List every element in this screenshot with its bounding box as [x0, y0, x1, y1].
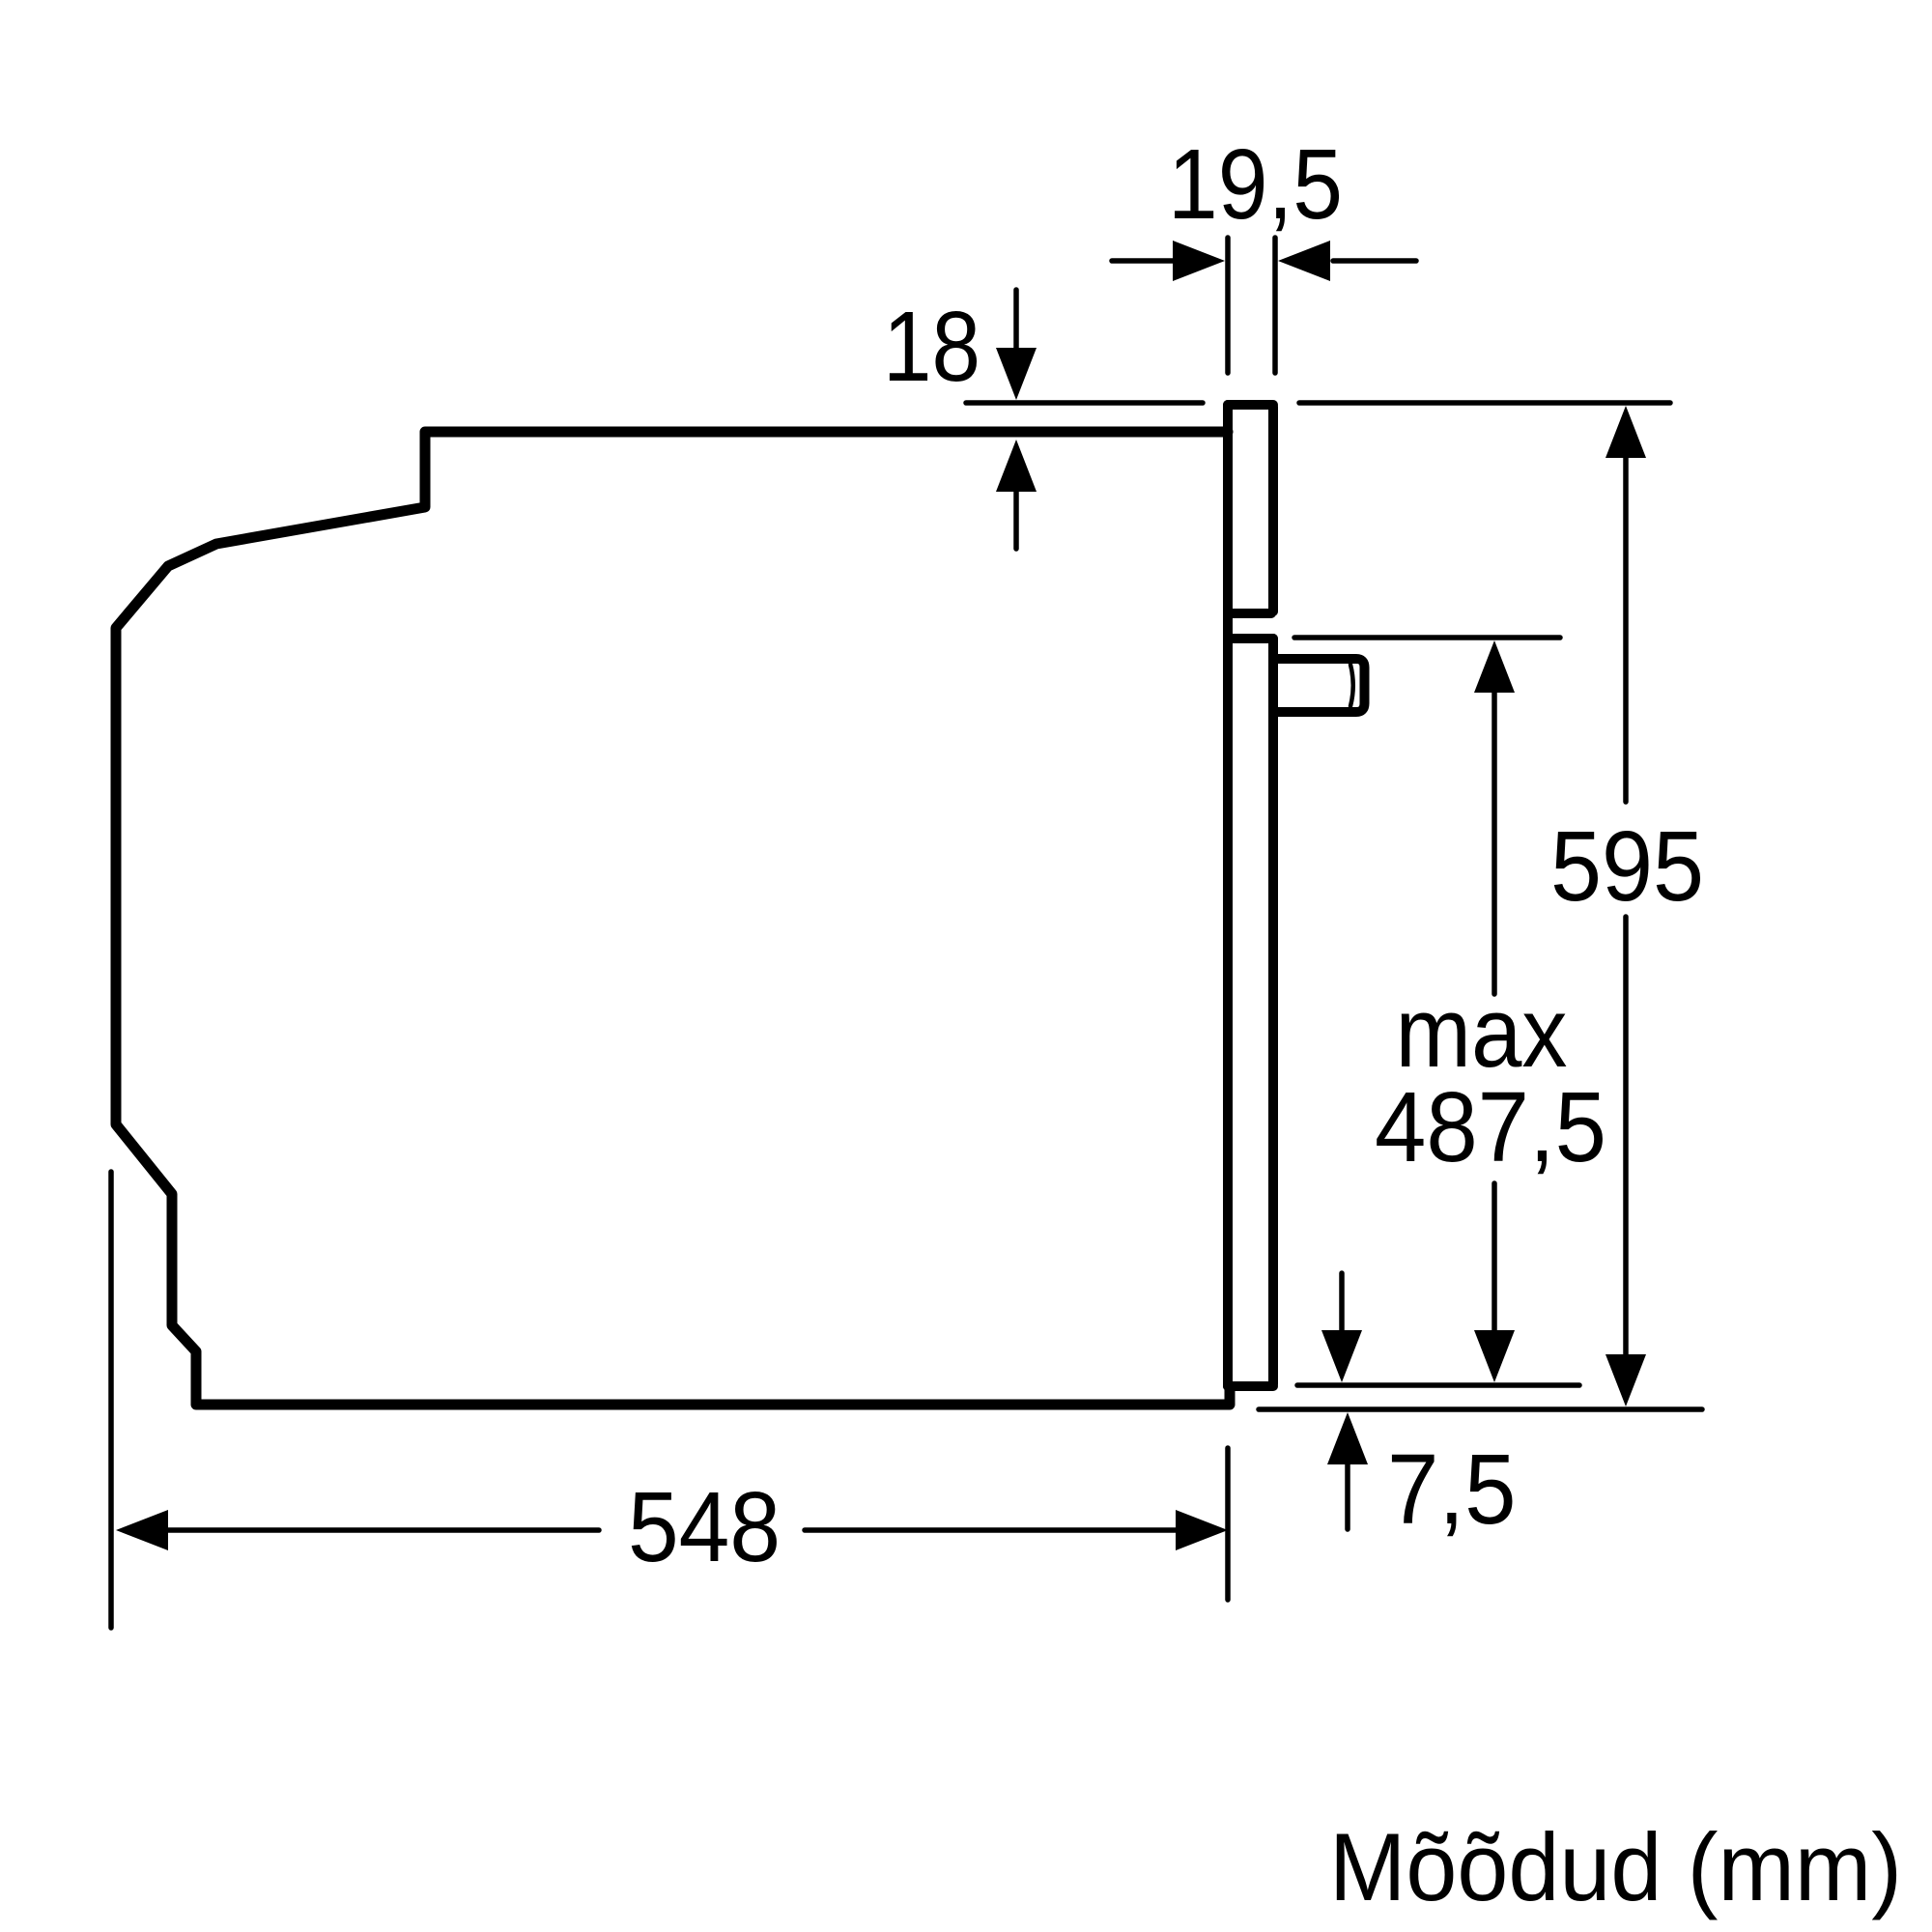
- extension line 548 left: [108, 1172, 114, 1628]
- dimension 548 line left part: [166, 1527, 599, 1533]
- extension line 19,5 right: [1272, 238, 1278, 373]
- arrowhead 18 pointing up: [996, 440, 1037, 492]
- arrowhead 18 pointing down: [996, 348, 1037, 400]
- extension line body bottom: [1259, 1406, 1702, 1412]
- oven body outline: [116, 432, 1230, 1405]
- door handle: [1275, 659, 1365, 712]
- dimension 595 line lower: [1623, 917, 1629, 1356]
- arrowhead 595 pointing down: [1605, 1354, 1646, 1406]
- arrowhead max 487,5 pointing up: [1474, 640, 1515, 693]
- dimension 595 line upper: [1623, 456, 1629, 802]
- dimension 19,5 right arrow line: [1333, 258, 1416, 264]
- arrowhead 595 pointing up: [1605, 406, 1646, 458]
- oven door bottom edge: [1228, 1381, 1273, 1391]
- oven door top edge: [1228, 400, 1273, 410]
- svg-text:548: 548: [628, 1471, 781, 1582]
- extension line top left segment: [966, 400, 1203, 406]
- svg-text:487,5: 487,5: [1375, 1071, 1606, 1182]
- arrowhead max 487,5 pointing down: [1474, 1330, 1515, 1382]
- dimension 18 lower arrow line: [1013, 488, 1019, 549]
- extension line top right segment: [1299, 400, 1670, 406]
- arrowhead 7,5 pointing up: [1327, 1412, 1368, 1464]
- dimension 548 line right part: [805, 1527, 1178, 1533]
- arrowhead 19,5 pointing left: [1278, 241, 1330, 281]
- dimension max 487,5 line upper: [1492, 691, 1497, 994]
- arrowhead 7,5 pointing down: [1321, 1330, 1362, 1382]
- svg-text:Mõõdud (mm): Mõõdud (mm): [1329, 1813, 1902, 1920]
- dimension 19,5 left arrow line: [1112, 258, 1175, 264]
- dimension 7,5 upper arrow line: [1339, 1273, 1345, 1333]
- arrowhead 548 pointing right: [1176, 1510, 1228, 1550]
- arrowhead 548 pointing left: [116, 1510, 168, 1550]
- oven door front face lower: [1268, 639, 1278, 1384]
- oven door inner bar A: [1230, 609, 1271, 618]
- oven door rear face: [1223, 405, 1233, 1386]
- door handle end cap inner line: [1350, 665, 1353, 706]
- oven door front face upper: [1268, 407, 1278, 611]
- dimension 7,5 lower arrow line: [1345, 1462, 1350, 1529]
- svg-text:19,5: 19,5: [1168, 128, 1343, 240]
- extension line 548 right: [1225, 1448, 1231, 1600]
- svg-text:7,5: 7,5: [1387, 1434, 1517, 1545]
- dimension max 487,5 line lower: [1492, 1183, 1497, 1333]
- svg-text:595: 595: [1550, 810, 1704, 922]
- extension line door bottom: [1297, 1382, 1579, 1388]
- dimension 18 upper arrow line: [1013, 290, 1019, 350]
- extension line 19,5 left: [1225, 238, 1231, 373]
- oven door inner bar B: [1230, 634, 1273, 643]
- arrowhead 19,5 pointing right: [1173, 241, 1225, 281]
- svg-text:18: 18: [883, 291, 980, 402]
- extension line below handle (max 487,5 top): [1294, 635, 1560, 640]
